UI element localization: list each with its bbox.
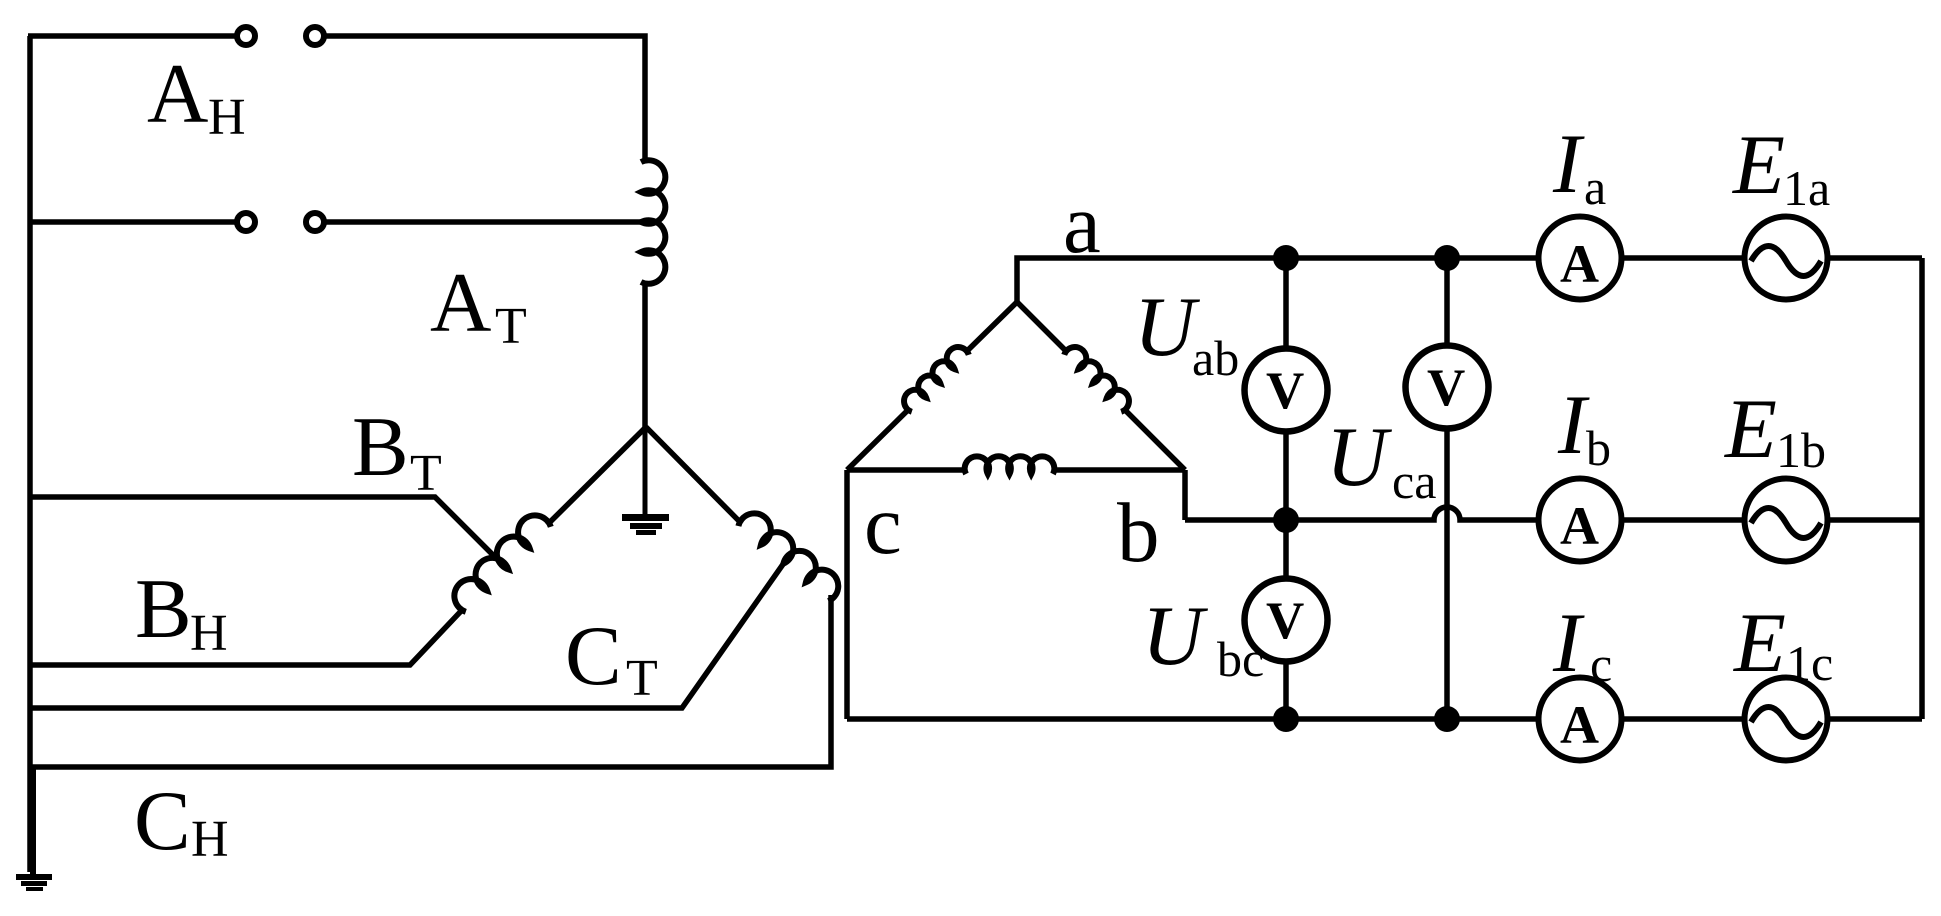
svg-text:ca: ca [1392, 453, 1436, 509]
source E1a [1745, 217, 1828, 300]
svg-text:A: A [1560, 695, 1599, 755]
svg-text:T: T [626, 650, 658, 707]
winding delta a-b (right leg) [1017, 302, 1185, 470]
svg-text:A: A [1560, 234, 1599, 294]
switch AH (open contacts) [237, 27, 324, 45]
svg-text:c: c [1590, 636, 1612, 692]
wire: star point to winding C [646, 427, 741, 523]
junction: node a / Uca [1434, 245, 1460, 271]
label node b [1117, 486, 1160, 580]
winding delta a-c (left leg) [847, 302, 1017, 470]
junction: node a / Uab [1273, 245, 1299, 271]
wire: node c line [847, 716, 1536, 722]
switch AT (open contacts) [237, 213, 324, 231]
wire: Uab voltmeter top lead [1283, 258, 1289, 348]
wire: Ubc voltmeter bottom lead [1283, 662, 1289, 719]
wire: delta corner c down [844, 470, 850, 719]
svg-text:ab: ab [1192, 330, 1239, 386]
wire: winding C down to CH line [28, 595, 831, 767]
label CT [565, 609, 658, 707]
wire: delta apex stem to node a [1017, 258, 1536, 302]
voltmeter Ubc [1245, 579, 1328, 662]
svg-text:E: E [1733, 596, 1786, 690]
wire: ammeter Ic to source E1c [1622, 716, 1745, 722]
label Ib [1557, 378, 1611, 476]
wire: Uca voltmeter bottom lead [1444, 429, 1450, 719]
svg-text:H: H [191, 811, 229, 868]
voltmeter Uab [1245, 349, 1328, 432]
svg-text:I: I [1552, 596, 1585, 690]
winding delta c-b (bottom) [847, 456, 1185, 474]
wire: source E1b to right bus [1828, 517, 1922, 523]
wire: switch AH to winding AT top [324, 36, 645, 162]
voltmeter Uca [1406, 346, 1489, 429]
svg-text:V: V [1427, 359, 1465, 417]
label AT [430, 256, 527, 355]
wire: ammeter Ib to source E1b [1622, 517, 1745, 523]
label BH [135, 562, 228, 662]
wire: switch AT to winding A tap [324, 219, 646, 225]
svg-text:H: H [208, 89, 246, 146]
wire: delta corner b down [1182, 470, 1188, 520]
wire: left HV bus vertical [27, 36, 33, 872]
svg-text:b: b [1586, 420, 1611, 476]
svg-text:U: U [1134, 280, 1200, 374]
label Uab [1134, 280, 1239, 386]
wire: right return bus [1919, 258, 1925, 719]
ammeter Ia [1539, 217, 1622, 300]
svg-text:1c: 1c [1786, 635, 1833, 691]
svg-text:c: c [864, 478, 902, 572]
winding B (autotransformer phase B) [454, 515, 550, 611]
winding A (autotransformer phase A) [641, 160, 665, 284]
ground: HV bus bottom [16, 767, 52, 891]
label node c [864, 478, 902, 572]
label AH [147, 47, 246, 146]
svg-text:A: A [1560, 496, 1599, 556]
svg-text:E: E [1724, 382, 1777, 476]
label BT [352, 400, 442, 502]
svg-text:b: b [1117, 486, 1160, 580]
wire: CT tap line [28, 560, 786, 708]
svg-text:V: V [1266, 362, 1304, 420]
wire: phase A line to switch AH [28, 33, 236, 39]
svg-text:C: C [134, 774, 191, 868]
wire: Uab voltmeter bottom lead [1283, 432, 1289, 520]
label CH [134, 774, 229, 868]
wire: Uca voltmeter top lead [1444, 258, 1450, 346]
wire: source E1c to right bus [1828, 716, 1922, 722]
svg-text:bc: bc [1217, 631, 1264, 687]
wire: star point to winding B [548, 427, 646, 524]
svg-text:T: T [410, 445, 442, 502]
ammeter Ib [1539, 479, 1622, 562]
wire: winding A to star point [642, 282, 648, 428]
svg-text:a: a [1063, 177, 1101, 271]
wire: Ubc voltmeter top lead [1283, 520, 1289, 578]
label Ia [1552, 117, 1606, 215]
svg-text:1a: 1a [1783, 160, 1830, 216]
label E1c [1733, 596, 1833, 691]
junction: node c / Ubc [1273, 706, 1299, 732]
svg-text:E: E [1732, 118, 1785, 212]
svg-text:C: C [565, 609, 622, 703]
svg-text:U: U [1142, 589, 1208, 683]
wire: phase A tap line to switch AT [28, 219, 236, 225]
svg-text:U: U [1326, 410, 1392, 504]
label Ubc [1142, 589, 1264, 687]
junction: node b / Uab-Ubc [1273, 507, 1299, 533]
svg-text:V: V [1266, 592, 1304, 650]
wire: BT tap line [28, 497, 505, 567]
svg-text:B: B [352, 400, 409, 494]
label node a [1063, 177, 1101, 271]
svg-text:I: I [1552, 117, 1585, 211]
winding C (autotransformer phase C) [738, 513, 838, 601]
svg-text:a: a [1584, 159, 1606, 215]
source E1b [1745, 479, 1828, 562]
ammeter Ic [1539, 678, 1622, 761]
wire: winding B to BH line [28, 609, 463, 665]
label Uca [1326, 410, 1436, 509]
wire: source E1a to right bus [1828, 255, 1922, 261]
svg-text:1b: 1b [1776, 422, 1826, 478]
ground: star neutral [622, 428, 669, 535]
wire: node b line with hop over Uca lead [1185, 507, 1536, 520]
label E1a [1732, 118, 1830, 216]
svg-text:A: A [147, 47, 208, 141]
junction: node c / Uca [1434, 706, 1460, 732]
svg-text:T: T [495, 298, 527, 355]
source E1c [1745, 678, 1828, 761]
label Ic [1552, 596, 1612, 692]
wire: ammeter Ia to source E1a [1622, 255, 1745, 261]
svg-text:A: A [430, 256, 491, 350]
svg-text:B: B [135, 562, 192, 656]
label E1b [1724, 382, 1826, 478]
svg-text:H: H [190, 605, 228, 662]
